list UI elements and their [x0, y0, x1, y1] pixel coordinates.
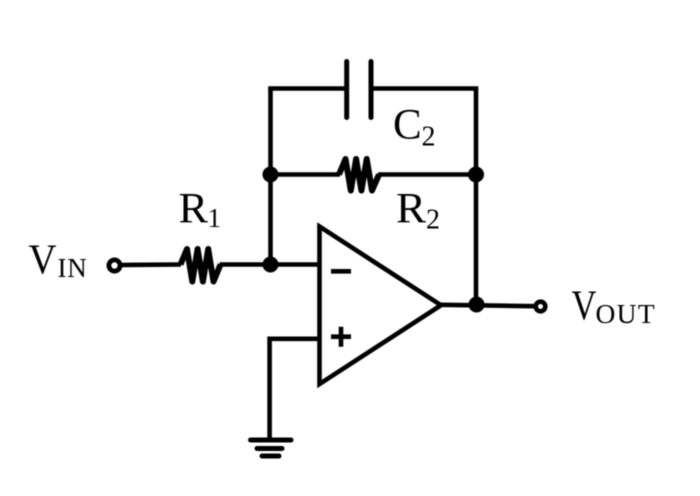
wire: input [121, 262, 181, 267]
svg-text:2: 2 [422, 122, 436, 153]
wire: R2 feedback row [271, 172, 341, 177]
svg-text:V: V [29, 238, 57, 284]
resistor R2 [339, 159, 379, 191]
node: junction dot right R2 [468, 167, 484, 183]
node: junction dot inverting [263, 257, 279, 273]
wire [378, 172, 476, 177]
wire: left column [268, 89, 273, 265]
svg-text:C: C [393, 102, 422, 149]
svg-text:R: R [179, 186, 209, 233]
capacitor C2 [347, 62, 371, 118]
ground [251, 440, 292, 456]
plus sign [331, 327, 351, 347]
svg-text:V: V [572, 284, 597, 330]
svg-text:2: 2 [426, 205, 440, 236]
wire: top feedback left segment [271, 89, 346, 92]
svg-text:R: R [396, 186, 426, 233]
svg-text:OUT: OUT [596, 298, 656, 329]
resistor R1 [181, 249, 221, 282]
wire: non-inverting input [270, 339, 320, 441]
wire: top feedback right segment [373, 89, 476, 92]
minus sign [331, 269, 351, 274]
wire: right column [474, 89, 479, 305]
svg-text:IN: IN [58, 253, 88, 283]
svg-text:1: 1 [208, 203, 222, 233]
terminal VIN [109, 260, 120, 271]
terminal VOUT [536, 302, 546, 312]
node: junction dot left R2 [263, 167, 279, 183]
op-amp U1 [320, 227, 442, 385]
wire: output [441, 305, 534, 306]
wire: to inverting input [220, 262, 321, 267]
node: junction dot output [469, 297, 485, 313]
